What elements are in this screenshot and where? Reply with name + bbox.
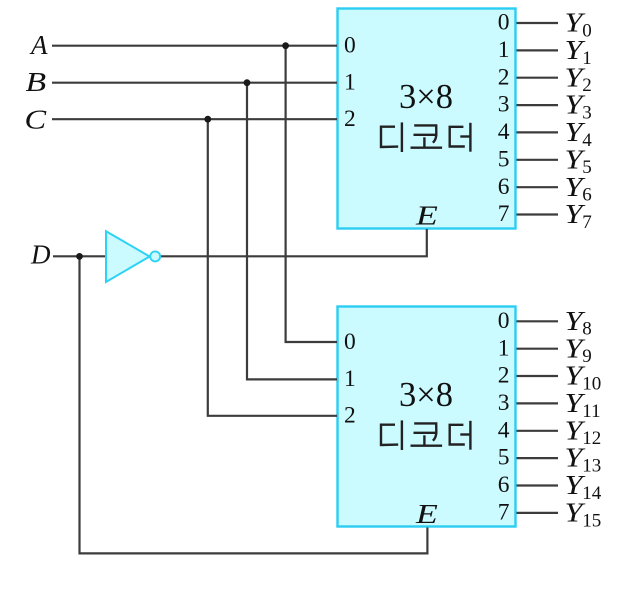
output label Y13: [565, 443, 602, 476]
junction node on C: [204, 116, 211, 123]
svg-text:6: 6: [498, 174, 510, 200]
svg-text:4: 4: [582, 130, 592, 151]
output label Y11: [565, 388, 601, 421]
wire U1 output 3: [517, 104, 559, 106]
wire D branch to U2 enable E: [80, 256, 428, 553]
output label Y12: [565, 416, 602, 449]
svg-text:7: 7: [498, 500, 510, 526]
svg-text:4: 4: [498, 119, 510, 145]
decoder U2 3x8 box: [338, 307, 516, 527]
wire U1 output 7: [517, 213, 559, 215]
svg-text:2: 2: [498, 363, 510, 389]
wire U2 output 4: [517, 430, 559, 432]
svg-text:3×8: 3×8: [399, 78, 453, 116]
svg-text:1: 1: [344, 70, 356, 96]
svg-text:5: 5: [498, 445, 510, 471]
output label Y0: [565, 8, 592, 41]
junction node on A: [282, 42, 289, 49]
svg-text:6: 6: [498, 472, 510, 498]
svg-text:4: 4: [498, 417, 510, 443]
svg-text:0: 0: [344, 329, 356, 355]
svg-text:1: 1: [582, 48, 592, 69]
svg-text:2: 2: [582, 75, 592, 96]
svg-text:1: 1: [498, 37, 510, 63]
wire inverter output to U1 enable E: [159, 229, 427, 256]
svg-text:6: 6: [582, 185, 592, 206]
inverter G1 triangle: [106, 231, 150, 282]
svg-text:7: 7: [582, 212, 592, 233]
wire U2 output 2: [517, 375, 559, 377]
wire U1 output 2: [517, 77, 559, 79]
wire U2 output 0: [517, 320, 559, 322]
svg-text:E: E: [415, 200, 438, 230]
svg-text:1: 1: [344, 366, 356, 392]
svg-text:2: 2: [344, 403, 356, 429]
output label Y6: [565, 172, 592, 205]
svg-text:9: 9: [582, 346, 592, 367]
junction node on D: [76, 253, 83, 260]
svg-text:15: 15: [582, 510, 601, 531]
svg-text:3×8: 3×8: [399, 376, 453, 414]
wire U2 output 1: [517, 348, 559, 350]
junction node on B: [244, 79, 251, 86]
svg-text:2: 2: [498, 64, 510, 90]
wire C branch to U2 pin 2: [208, 119, 337, 416]
wire U1 output 1: [517, 49, 559, 51]
output label Y8: [565, 306, 592, 339]
output label Y3: [565, 90, 592, 123]
svg-text:0: 0: [344, 33, 356, 59]
output label Y14: [565, 471, 602, 504]
svg-text:5: 5: [582, 157, 592, 178]
output label Y9: [565, 334, 592, 367]
wire C to U1 pin 2: [52, 118, 337, 120]
U1 value label decoder (Hangul dikoda drawn as strokes): [381, 124, 470, 151]
svg-text:3: 3: [498, 92, 510, 118]
svg-text:3: 3: [582, 103, 592, 124]
wire U2 output 5: [517, 457, 559, 459]
svg-text:10: 10: [582, 373, 601, 394]
output label Y1: [565, 35, 592, 68]
wire U1 output 0: [517, 22, 559, 24]
svg-text:14: 14: [582, 483, 602, 504]
wire A to U1 pin 0: [52, 45, 337, 47]
svg-text:13: 13: [582, 456, 601, 477]
U2 value label decoder (Hangul dikoda drawn as strokes): [381, 422, 470, 449]
svg-text:E: E: [415, 499, 438, 529]
wire B branch to U2 pin 1: [247, 83, 337, 380]
wire U1 output 6: [517, 186, 559, 188]
svg-text:0: 0: [498, 308, 510, 334]
svg-text:C: C: [25, 105, 48, 135]
wire A branch to U2 pin 0: [286, 46, 337, 342]
output label Y4: [565, 117, 593, 150]
svg-text:8: 8: [582, 319, 592, 340]
svg-text:0: 0: [498, 10, 510, 36]
svg-text:1: 1: [498, 335, 510, 361]
svg-text:2: 2: [344, 106, 356, 132]
svg-text:A: A: [29, 30, 48, 60]
svg-text:3: 3: [498, 390, 510, 416]
output label Y15: [565, 498, 602, 531]
svg-text:11: 11: [582, 401, 600, 422]
wire B to U1 pin 1: [52, 82, 337, 84]
wire U2 output 7: [517, 512, 559, 514]
svg-text:12: 12: [582, 428, 601, 449]
svg-text:D: D: [30, 240, 51, 270]
wire D to inverter input: [53, 255, 106, 257]
svg-text:5: 5: [498, 146, 510, 172]
output label Y10: [565, 361, 602, 394]
output label Y7: [565, 200, 592, 233]
output label Y5: [565, 145, 592, 178]
wire U1 output 4: [517, 131, 559, 133]
svg-text:0: 0: [582, 20, 592, 41]
decoder U1 3x8 box: [338, 9, 516, 229]
inverter G1 bubble: [150, 251, 160, 261]
wire U2 output 6: [517, 484, 559, 486]
output label Y2: [565, 63, 592, 96]
svg-text:7: 7: [498, 201, 510, 227]
svg-text:B: B: [26, 67, 47, 97]
wire U2 output 3: [517, 402, 559, 404]
wire U1 output 5: [517, 159, 559, 161]
